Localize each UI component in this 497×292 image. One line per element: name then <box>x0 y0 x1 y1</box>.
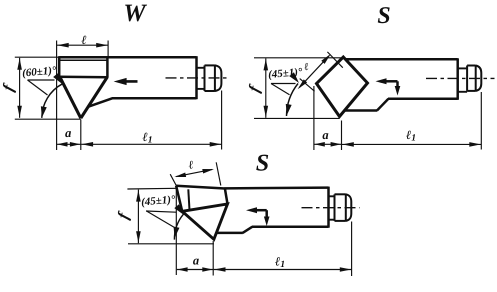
dim f : extension lines <box>15 56 59 58</box>
dim l1 : right extension <box>221 91 223 150</box>
dim f : dimension line <box>265 58 267 117</box>
dim l : label <box>304 63 309 71</box>
head insert seam <box>60 59 108 61</box>
dim l : label <box>81 36 86 44</box>
angle arc <box>287 84 299 117</box>
triangular insert <box>182 204 227 239</box>
dim l : dimension line <box>176 169 212 176</box>
feed direction bent arrow <box>252 209 267 212</box>
V-cutter left face <box>60 77 81 118</box>
dim f : label <box>247 83 263 94</box>
knurled knob <box>466 66 468 91</box>
knurled knob <box>204 65 206 91</box>
dim l1 : right extension <box>351 222 353 277</box>
dim l : extension lines <box>56 41 58 151</box>
dim l : left extension <box>170 174 177 187</box>
head right edge <box>106 57 109 78</box>
dim l1 : right extension <box>480 92 482 150</box>
dim l : dimension line <box>57 44 108 46</box>
dim l : right extension <box>216 162 221 185</box>
angle leader <box>28 80 48 95</box>
dim a : dimension line <box>177 269 214 271</box>
dim l1 : label <box>406 131 415 141</box>
shank neck <box>197 67 205 69</box>
tool body outline <box>346 58 458 61</box>
clamp plate outline <box>176 186 225 189</box>
centerline <box>426 77 495 79</box>
angle leader <box>271 84 290 95</box>
feed direction bent arrow <box>382 80 398 83</box>
shank neck <box>458 67 467 69</box>
apex extension line <box>80 120 82 151</box>
square insert (diamond) <box>317 57 368 117</box>
label S <box>378 7 390 23</box>
angle leader shelf <box>28 79 55 81</box>
angle leader shelf <box>146 211 176 212</box>
V-cutter top edge <box>58 76 108 79</box>
dim l : lower extension <box>300 79 315 92</box>
dim a : dimension line <box>314 143 342 145</box>
dim l1 : dimension line <box>342 143 481 145</box>
angle arc <box>42 84 62 118</box>
dim a : label <box>193 259 199 265</box>
angle text (60±1)° <box>22 66 56 79</box>
V-cutter right face <box>81 77 107 118</box>
shank neck <box>329 195 335 197</box>
tool body outline <box>59 56 196 59</box>
dim f : label <box>1 82 17 93</box>
dim f : extension lines <box>127 187 176 190</box>
angle text (45±1)° <box>141 195 175 208</box>
dim f : extension lines <box>254 57 341 59</box>
dim l : upper extension <box>327 52 342 68</box>
dim l1 : dimension line <box>81 143 221 145</box>
dim a : extension lines <box>175 189 177 275</box>
dim a : dimension line <box>57 143 81 145</box>
dim l1 : label <box>275 257 284 267</box>
angle arc <box>174 214 183 239</box>
centerline <box>166 77 228 79</box>
plate seam <box>188 189 189 210</box>
dim l1 : label <box>142 133 151 143</box>
dim a : extension lines <box>313 86 315 150</box>
dim l (45deg) : dimension line <box>300 56 330 88</box>
label W <box>125 5 147 22</box>
head left edge <box>58 56 61 77</box>
dim f : label <box>116 210 132 221</box>
dim f : dimension line <box>137 190 139 244</box>
label S <box>256 155 268 171</box>
angle leader <box>147 211 175 228</box>
angle text (45±1)° <box>268 67 302 80</box>
feed direction arrow <box>120 80 138 83</box>
angle leader shelf <box>271 83 296 85</box>
dim a : label <box>65 131 71 137</box>
centerline <box>302 207 360 209</box>
dim l1 : dimension line <box>214 269 352 271</box>
dim l : label <box>188 161 194 169</box>
tool body outline <box>225 186 329 189</box>
dim f : dimension line <box>19 58 21 118</box>
dim a : label <box>323 133 329 139</box>
knurled knob <box>334 194 336 221</box>
